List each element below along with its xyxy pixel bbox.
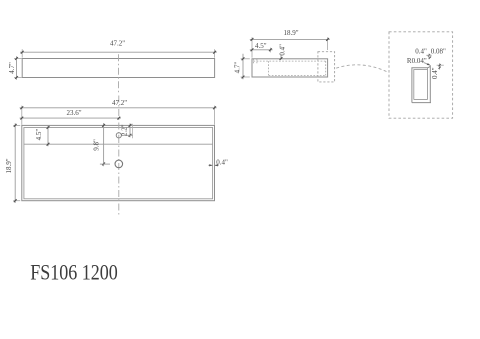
side view hidden top interior line <box>253 60 326 62</box>
side view dimension line 4.7 <box>242 54 244 79</box>
detail wall inner right line <box>427 68 429 100</box>
side view 4.5 tick right <box>269 48 272 51</box>
svg-text:18.9": 18.9" <box>5 158 13 173</box>
front view 47.2 tick right <box>213 51 216 54</box>
plan view 9.8 tick top <box>102 124 105 127</box>
front view 4.7 extension line bottom <box>14 77 22 79</box>
plan view 2.2 bottom reference tick <box>122 134 133 136</box>
plan view inner outline <box>24 128 213 199</box>
side view dimension line 4.5 <box>250 49 273 51</box>
side view outline <box>252 59 328 77</box>
svg-text:18.9": 18.9" <box>283 29 298 37</box>
svg-text:0.08": 0.08" <box>431 47 446 55</box>
plan view outer outline <box>22 125 215 200</box>
side view hidden bottom interior line <box>269 74 327 76</box>
front view outline <box>22 59 214 78</box>
plan view dimension line 23.6 <box>20 117 121 119</box>
svg-text:0.4": 0.4" <box>415 47 427 55</box>
plan view dimension line 18.9 <box>14 123 16 203</box>
plan view 0.4 wall arrow right <box>215 164 218 166</box>
plan view vertical centerline <box>118 96 120 216</box>
side view 4.5 tick left <box>251 48 254 51</box>
svg-text:47.2": 47.2" <box>110 40 125 48</box>
svg-text:4.5": 4.5" <box>35 129 43 141</box>
front view dimension line 4.7 <box>16 56 18 79</box>
side view hidden faucet hole edge right <box>256 59 258 64</box>
detail right 0.4 extension line <box>437 64 444 66</box>
faucet hole circle <box>116 133 121 138</box>
side view 18.9 tick right <box>326 38 329 41</box>
svg-text:4.7": 4.7" <box>234 62 242 74</box>
plan view 18.9 extension line top <box>13 124 20 126</box>
side view 18.9 extension line left <box>251 37 253 57</box>
side view 18.9 extension line right <box>327 37 329 50</box>
plan view 9.8 bottom reference tick <box>100 163 110 165</box>
plan view 47.2 extension line right <box>214 106 216 125</box>
plan view 23.6 tick right <box>117 117 120 120</box>
svg-text:0.4": 0.4" <box>278 44 286 56</box>
plan view 2.2 tick bottom <box>129 134 132 137</box>
plan view 47.2 tick left <box>20 106 23 109</box>
plan view 2.2 tick top <box>129 124 132 127</box>
detail right 0.4 dimension line <box>439 63 441 69</box>
plan view 18.9 tick bottom <box>14 199 17 202</box>
svg-text:0.4": 0.4" <box>216 159 228 167</box>
front view 4.7 extension line top <box>14 58 22 60</box>
plan view 4.5 tick top <box>47 126 50 129</box>
svg-text:4.5": 4.5" <box>255 42 267 50</box>
detail top dimension stub <box>428 54 430 60</box>
front view 4.7 tick top <box>15 57 18 60</box>
front view dimension line 47.2 <box>20 51 217 53</box>
side view hidden right interior wall <box>325 61 327 75</box>
svg-text:0.4": 0.4" <box>431 67 439 79</box>
svg-text:9.8": 9.8" <box>92 139 100 151</box>
front view vertical centerline <box>118 54 120 94</box>
plan view 23.6 tick left <box>20 117 23 120</box>
svg-text:FS106 1200: FS106 1200 <box>30 259 118 284</box>
side view 4.5 extension stub <box>269 48 271 53</box>
plan view dimension line 2.2 <box>129 124 131 138</box>
side view hidden faucet hole edge left <box>253 59 255 64</box>
side view 18.9 tick left <box>251 38 254 41</box>
detail radius leader arrowhead <box>427 63 431 65</box>
plan view 18.9 tick top <box>14 124 17 127</box>
drain hole circle <box>115 160 123 168</box>
plan view dimension line 4.5 <box>47 126 49 146</box>
front view 47.2 extension line left <box>21 49 23 57</box>
side view 4.7 tick top <box>242 57 245 60</box>
plan view 18.9 extension line bottom <box>13 200 20 202</box>
svg-text:R0.04": R0.04" <box>407 57 427 65</box>
svg-text:47.2": 47.2" <box>112 99 127 107</box>
detail wall outer profile <box>412 65 430 102</box>
side view 0.4 rim tick <box>280 57 283 60</box>
side view 4.7 extension line top <box>241 58 250 60</box>
plan view 0.4 wall arrow left <box>209 164 212 166</box>
detail top dimension tick a <box>428 54 430 56</box>
side view dimension line 18.9 <box>250 38 330 40</box>
detail radius leader <box>424 63 430 65</box>
detail right 0.4 tick b <box>439 67 441 69</box>
faucet hole center dot <box>118 135 119 136</box>
detail view dashed border <box>389 32 453 118</box>
detail top dimension tick b <box>429 57 431 59</box>
plan view 47.2 extension line left <box>21 106 23 125</box>
plan view 9.8 tick bottom <box>102 163 105 166</box>
detail wall inner profile <box>414 70 428 100</box>
detail right 0.4 tick a <box>439 64 441 66</box>
plan view 0.4 wall dimension left arrow line <box>208 164 212 166</box>
side view 4.7 extension line bottom <box>241 76 250 78</box>
plan view 2.2 extension line <box>131 124 133 138</box>
plan view dimension line 9.8 <box>103 123 105 166</box>
svg-text:2.2": 2.2" <box>121 124 129 136</box>
plan view 47.2 tick right <box>213 106 216 109</box>
front view 4.7 tick bottom <box>15 76 18 79</box>
plan view 0.4 wall dimension right arrow line <box>215 164 219 166</box>
detail wall bottom outer line <box>412 102 431 104</box>
detail callout leader arc <box>336 65 387 72</box>
svg-text:4.7": 4.7" <box>8 62 16 74</box>
front view 47.2 tick left <box>21 51 24 54</box>
detail wall inner bottom line <box>414 99 428 101</box>
front view 47.2 extension line right <box>214 49 216 57</box>
plan view ledge line <box>24 143 213 145</box>
detail callout box on side view <box>318 52 335 82</box>
plan view dimension line 47.2 <box>20 107 217 109</box>
plan view 4.5 tick bottom <box>47 143 50 146</box>
side view 4.7 tick bottom <box>242 76 245 79</box>
detail top dimension cross line <box>426 54 431 56</box>
side view hidden left interior wall <box>268 61 270 75</box>
side view 0.4 rim dimension stub <box>280 55 282 59</box>
svg-text:23.6": 23.6" <box>66 109 81 117</box>
